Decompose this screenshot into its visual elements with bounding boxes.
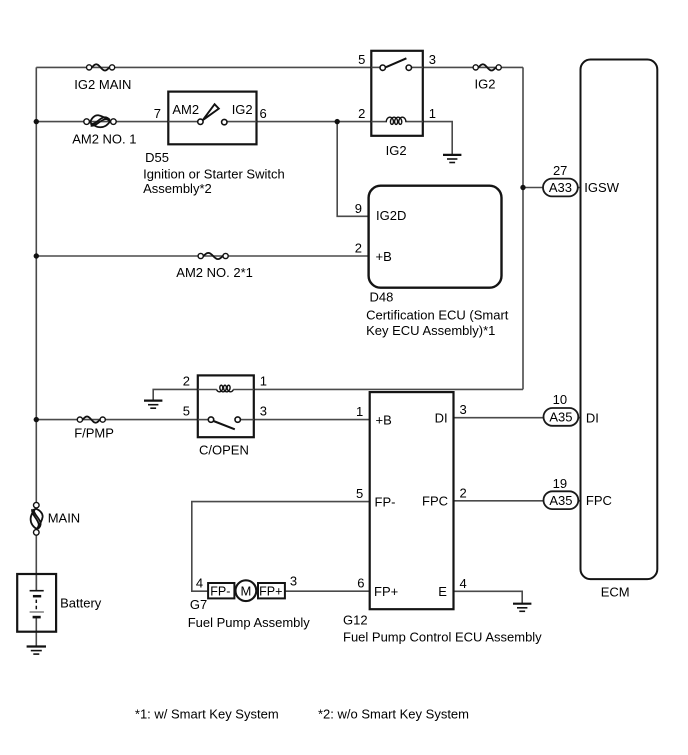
svg-text:7: 7 [154, 106, 161, 121]
svg-text:+B: +B [376, 412, 392, 427]
svg-text:DI: DI [586, 410, 599, 425]
svg-text:1: 1 [260, 374, 267, 389]
svg-text:6: 6 [357, 576, 364, 591]
svg-text:1: 1 [429, 106, 436, 121]
battery cell plate short bottom [33, 616, 41, 619]
svg-text:Assembly*2: Assembly*2 [143, 181, 212, 196]
battery cell plate long bottom [30, 611, 44, 613]
wire C/OPEN pin 2 to ground [153, 389, 198, 400]
wire C/OPEN coil right stub [233, 389, 254, 391]
svg-text:FP-: FP- [210, 585, 230, 599]
svg-text:5: 5 [358, 52, 365, 67]
junction dot D48 branch [335, 119, 340, 124]
svg-text:1: 1 [356, 404, 363, 419]
svg-text:2: 2 [460, 485, 467, 500]
wire D55 internal left [168, 121, 197, 123]
ECM box [581, 60, 658, 580]
svg-text:Fuel Pump Control ECU Assembly: Fuel Pump Control ECU Assembly [343, 630, 542, 645]
svg-text:A35: A35 [549, 410, 572, 425]
svg-text:3: 3 [429, 52, 436, 67]
wire G12 E to ground [454, 591, 523, 603]
svg-text:E: E [438, 584, 447, 599]
svg-text:*2: w/o Smart Key System: *2: w/o Smart Key System [318, 707, 469, 722]
wire C/OPEN pin 1 to right bus [254, 388, 523, 390]
fuse F/PMP [77, 417, 105, 423]
wire G12 FP- loop to fuel pump pin 4 [192, 502, 370, 592]
svg-text:+B: +B [376, 249, 392, 264]
fusible link AM2 NO. 1 [84, 115, 116, 127]
svg-text:27: 27 [553, 163, 567, 178]
lever IG2 relay switch [386, 58, 407, 67]
fuel pump FP+ terminal box [258, 583, 285, 598]
svg-text:F/PMP: F/PMP [74, 426, 114, 441]
svg-text:4: 4 [460, 576, 467, 591]
svg-text:IG2D: IG2D [376, 208, 406, 223]
svg-text:IG2 MAIN: IG2 MAIN [74, 77, 131, 92]
svg-text:FP-: FP- [375, 495, 396, 510]
wire battery internal top [35, 574, 37, 590]
svg-text:3: 3 [460, 402, 467, 417]
wire IG2 relay switch right stub [412, 66, 423, 68]
svg-text:IG2: IG2 [475, 77, 496, 92]
svg-text:6: 6 [260, 106, 267, 121]
relay C/OPEN box [198, 375, 254, 437]
svg-text:3: 3 [260, 403, 267, 418]
svg-text:FPC: FPC [586, 493, 612, 508]
relay IG2 box [371, 51, 423, 136]
wire G12 FPC to A35 [454, 500, 581, 502]
svg-text:5: 5 [356, 486, 363, 501]
svg-text:IG2: IG2 [232, 102, 253, 117]
wire IG2 relay coil right stub [405, 121, 423, 123]
wire left bus vertical upper (top corner to MAIN link) [35, 67, 37, 505]
wire C/OPEN pin 3 to G12 +B [254, 419, 370, 421]
wire IG2 relay switch left stub [371, 66, 380, 68]
svg-text:FPC: FPC [422, 494, 448, 509]
svg-text:MAIN: MAIN [48, 510, 80, 525]
wire C/OPEN switch left stub [198, 419, 209, 421]
connector oval A33 [543, 179, 578, 197]
svg-text:G7: G7 [190, 597, 207, 612]
fuel pump FP- terminal box [208, 583, 234, 598]
svg-text:C/OPEN: C/OPEN [199, 442, 249, 457]
svg-text:Battery: Battery [60, 595, 102, 610]
wire D55 internal right [227, 121, 256, 123]
contact C/OPEN right [235, 417, 240, 422]
ignition switch D55 box [168, 92, 256, 145]
svg-text:9: 9 [355, 201, 362, 216]
contact IG2 relay left [380, 65, 385, 70]
svg-text:AM2: AM2 [172, 102, 199, 117]
ground below battery [27, 647, 46, 655]
connector oval A35 FPC [544, 491, 579, 509]
svg-text:4: 4 [196, 576, 203, 591]
wire C/OPEN coil left stub [198, 389, 217, 391]
wire right bus to A33 IGSW [523, 187, 581, 189]
wire fuel pump pin 3 to G12 FP+ [285, 590, 370, 592]
wire AM2 NO. 1 row to D55 pin 7 [36, 121, 168, 123]
svg-text:10: 10 [553, 392, 567, 407]
svg-text:ECM: ECM [601, 584, 630, 599]
svg-text:Ignition or Starter Switch: Ignition or Starter Switch [143, 166, 285, 181]
wire F/PMP row to C/OPEN pin 5 [36, 419, 198, 421]
wire AM2 NO. 2 row to D48 +B [36, 255, 368, 257]
wire IG2 relay coil left stub [371, 121, 387, 123]
svg-text:2: 2 [358, 106, 365, 121]
svg-text:FP+: FP+ [259, 585, 282, 599]
lever C/OPEN relay switch [213, 421, 235, 429]
connector oval A35 DI [544, 408, 579, 426]
svg-text:G12: G12 [343, 612, 368, 627]
svg-text:A33: A33 [549, 180, 572, 195]
battery dashed middle [35, 600, 37, 610]
wire IG2 relay pin 1 to ground drop [423, 122, 452, 155]
wire right bus vertical [522, 67, 524, 389]
wire left bus vertical lower (MAIN link to battery) [35, 532, 37, 590]
fuel pump control ECU G12 box [370, 392, 454, 609]
svg-text:Certification ECU (Smart: Certification ECU (Smart [366, 308, 509, 323]
svg-text:AM2 NO. 1: AM2 NO. 1 [72, 131, 136, 146]
fuel pump motor circle [236, 580, 257, 601]
wire IG2 relay pin 3 through IG2 fuse to right bus [423, 66, 523, 68]
fuse AM2 NO. 2 [198, 253, 228, 259]
contact D55 AM2 [198, 119, 203, 124]
svg-text:DI: DI [435, 410, 448, 425]
contact D55 IG2 [222, 119, 227, 124]
wire C/OPEN switch right stub [240, 419, 253, 421]
junction dot left bus / AM2 NO. 1 [34, 119, 39, 124]
svg-text:FP+: FP+ [374, 584, 398, 599]
contact IG2 relay right [406, 65, 411, 70]
svg-text:D48: D48 [370, 289, 394, 304]
battery cell plate short top [33, 595, 41, 598]
ground at IG2 relay pin 1 [443, 155, 461, 163]
wire battery negative to ground [35, 617, 37, 646]
svg-text:Key ECU Assembly)*1: Key ECU Assembly)*1 [366, 323, 495, 338]
junction dot left bus / AM2 NO. 2 [34, 253, 39, 258]
svg-text:D55: D55 [145, 150, 169, 165]
fuse IG2 MAIN [87, 64, 115, 70]
svg-text:M: M [240, 583, 251, 598]
svg-text:Fuel Pump Assembly: Fuel Pump Assembly [188, 615, 311, 630]
svg-text:IG2: IG2 [386, 143, 407, 158]
svg-text:5: 5 [183, 403, 190, 418]
wire D55 pin 6 to IG2 relay pin 2 [257, 121, 372, 123]
svg-text:3: 3 [290, 574, 297, 589]
svg-text:19: 19 [553, 476, 567, 491]
junction dot right bus / IGSW [520, 185, 525, 190]
coil C/OPEN relay [217, 385, 234, 392]
junction dot left bus / F-PMP [34, 417, 39, 422]
lever D55 ignition switch [203, 104, 219, 120]
battery cell plate long top [30, 590, 44, 592]
certification ECU D48 box [369, 186, 502, 288]
svg-text:2: 2 [183, 374, 190, 389]
svg-text:*1: w/ Smart Key System: *1: w/ Smart Key System [135, 707, 279, 722]
coil IG2 relay [386, 117, 406, 124]
battery box [17, 574, 56, 632]
svg-text:2: 2 [355, 241, 362, 256]
fuse IG2 [473, 64, 501, 70]
contact C/OPEN left [208, 417, 213, 422]
svg-text:IGSW: IGSW [584, 180, 619, 195]
svg-text:A35: A35 [549, 493, 572, 508]
ground at G12 E pin [513, 604, 531, 612]
ground at C/OPEN pin 2 [144, 401, 162, 409]
fusible link MAIN [31, 502, 43, 535]
svg-text:AM2 NO. 2*1: AM2 NO. 2*1 [176, 265, 253, 280]
wire G12 DI to A35 [454, 417, 581, 419]
wire branch junction to D48 pin 9 [337, 122, 368, 217]
wire top row from left bus to IG2 relay pin 5 [36, 66, 371, 68]
